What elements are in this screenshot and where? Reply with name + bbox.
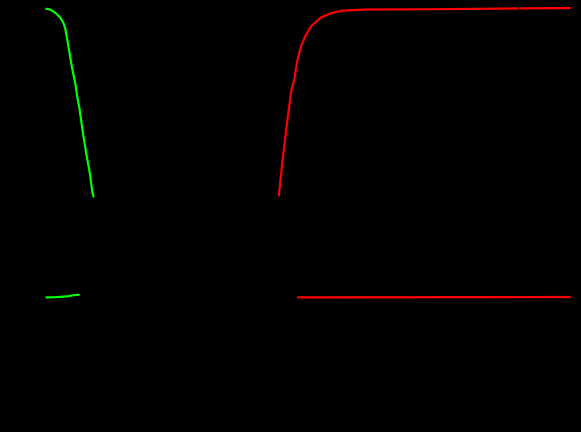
black axis tic notches over red top line <box>413 0 414 8</box>
red curve upper branch <box>279 8 570 195</box>
red curve lower branch <box>298 296 570 299</box>
green curve upper branch <box>46 9 93 197</box>
green curve lower branch <box>47 295 79 298</box>
